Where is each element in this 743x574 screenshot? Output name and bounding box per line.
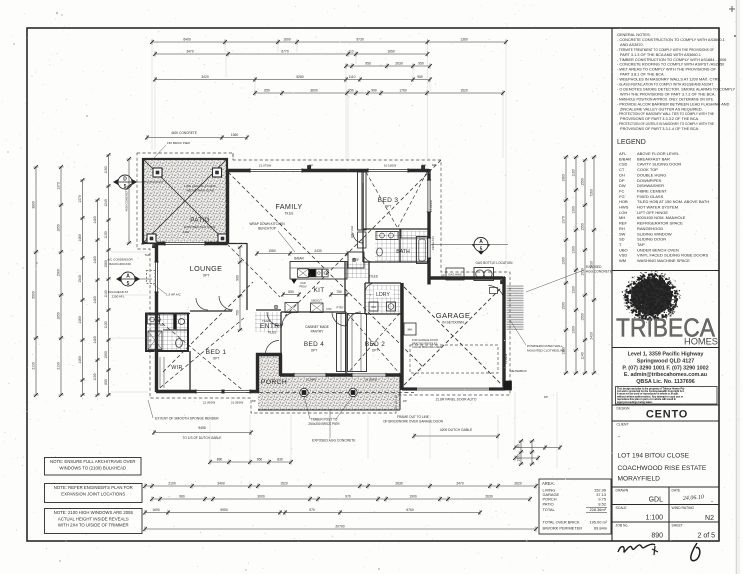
svg-text:GARAGE: GARAGE <box>436 311 471 320</box>
svg-text:ZINCALUME VALLEY GUTTER AS REQ: ZINCALUME VALLEY GUTTER AS REQUIRED. <box>620 107 703 111</box>
svg-text:BED 3: BED 3 <box>378 197 399 204</box>
svg-text:4420 CONCRETE: 4420 CONCRETE <box>125 188 129 212</box>
svg-text:WITH THE PROVISIONS OF PART 3.: WITH THE PROVISIONS OF PART 3.7.2 OF THE… <box>620 92 716 96</box>
svg-text:830: 830 <box>277 458 283 462</box>
svg-text:B/BAR: B/BAR <box>619 156 631 161</box>
svg-text:1240: 1240 <box>104 199 108 207</box>
svg-text:650: 650 <box>264 89 270 93</box>
svg-text:3890: 3890 <box>32 201 36 209</box>
svg-text:- PROVIDE ALCOR BARRIER BETWEE: - PROVIDE ALCOR BARRIER BETWEEN LEAD FLA… <box>617 102 730 106</box>
svg-text:WM: WM <box>371 305 376 309</box>
svg-text:2130: 2130 <box>32 362 36 370</box>
svg-text:2430: 2430 <box>314 249 322 253</box>
svg-text:- WEEPHOLES IN MASONRY WALLS A: - WEEPHOLES IN MASONRY WALLS AT 1200 MAX… <box>617 78 721 82</box>
svg-text:WM: WM <box>619 258 626 263</box>
svg-text:21.8R PANEL DOOR AUTO: 21.8R PANEL DOOR AUTO <box>436 398 477 402</box>
svg-text:5280: 5280 <box>296 75 304 79</box>
svg-text:1600: 1600 <box>283 38 291 42</box>
svg-text:21.06SW: 21.06SW <box>365 378 377 382</box>
svg-text:GENERAL NOTES:: GENERAL NOTES: <box>617 33 651 37</box>
svg-text:1060: 1060 <box>104 260 108 268</box>
svg-text:1140: 1140 <box>104 290 108 297</box>
svg-text:PATIO: PATIO <box>190 217 209 224</box>
svg-text:TAP: TAP <box>145 253 150 257</box>
svg-text:REFRIGERATOR SPACE: REFRIGERATOR SPACE <box>637 221 683 226</box>
svg-text:1.5 HP A/C: 1.5 HP A/C <box>166 293 182 297</box>
svg-text:FAMILY: FAMILY <box>275 202 302 211</box>
svg-text:WASHING MACHINE SPACE: WASHING MACHINE SPACE <box>637 258 690 263</box>
svg-text:D: D <box>123 176 127 182</box>
svg-text:2130: 2130 <box>57 362 61 370</box>
svg-text:1500: 1500 <box>562 302 566 310</box>
svg-text:WIR: WIR <box>171 365 183 371</box>
svg-text:OPT: OPT <box>311 349 318 353</box>
svg-text:WIND RATING: WIND RATING <box>672 506 695 510</box>
svg-text:6760: 6760 <box>406 508 414 512</box>
svg-text:FIBRE CEMENT: FIBRE CEMENT <box>637 188 667 193</box>
svg-text:5: 5 <box>480 246 483 252</box>
svg-text:HOMES: HOMES <box>684 337 718 347</box>
svg-text:1520: 1520 <box>460 89 468 93</box>
svg-text:CHC: CHC <box>326 308 332 311</box>
svg-text:MH: MH <box>408 328 413 332</box>
svg-text:WITH 2X4 TO U/SIDE OF TRIMMER: WITH 2X4 TO U/SIDE OF TRIMMER <box>58 523 129 528</box>
svg-text:1690: 1690 <box>152 508 160 512</box>
svg-text:1:100: 1:100 <box>645 515 663 522</box>
svg-text:1390: 1390 <box>562 257 566 265</box>
svg-text:TILES: TILES <box>268 331 277 335</box>
svg-text:1980: 1980 <box>268 249 276 253</box>
svg-text:TOTAL OVER BRICK: TOTAL OVER BRICK <box>543 520 581 525</box>
svg-text:EXTENT OF SMOOTH SPONGE RENDER: EXTENT OF SMOOTH SPONGE RENDER <box>155 417 219 421</box>
svg-text:DP: DP <box>544 395 548 399</box>
svg-text:BRACING PROFILES: BRACING PROFILES <box>412 342 438 346</box>
svg-text:1480: 1480 <box>93 296 97 304</box>
svg-text:EXPOSED AGG CONCRETE: EXPOSED AGG CONCRETE <box>312 439 356 443</box>
svg-text:LINEN: LINEN <box>362 238 365 245</box>
svg-text:REFGLASS: REFGLASS <box>431 236 435 250</box>
svg-text:- GLASS INSTALLATION TO COMPLY: - GLASS INSTALLATION TO COMPLY WITH AS12… <box>617 83 714 87</box>
svg-text:LOT 194 BITOU CLOSE: LOT 194 BITOU CLOSE <box>618 453 690 460</box>
svg-text:1550: 1550 <box>581 223 585 231</box>
svg-text:1150: 1150 <box>104 166 108 173</box>
svg-text:8.52: 8.52 <box>598 501 606 506</box>
svg-text:PART 3.8.1 OF THE BCA.: PART 3.8.1 OF THE BCA. <box>620 73 665 77</box>
svg-text:ACTUAL HEIGHT INSIDE REVEALS: ACTUAL HEIGHT INSIDE REVEALS <box>58 516 129 521</box>
svg-text:WRAP DOWN KITCHEN: WRAP DOWN KITCHEN <box>249 222 285 226</box>
svg-text:UBO/C/T: UBO/C/T <box>311 298 322 302</box>
svg-text:DOWNPIPES: DOWNPIPES <box>637 178 662 183</box>
svg-text:- CONCRETE ROOFING TO COMPLY W: - CONCRETE ROOFING TO COMPLY WITH AS/PST… <box>617 63 724 67</box>
svg-text:FRAME OUT TO LINE: FRAME OUT TO LINE <box>397 415 429 419</box>
svg-text:DH: DH <box>619 172 625 177</box>
svg-text:CSD: CSD <box>619 162 628 167</box>
svg-text:QBSA Lic. No. 1137696: QBSA Lic. No. 1137696 <box>636 379 695 385</box>
svg-text:1480: 1480 <box>93 216 97 224</box>
svg-text:6770: 6770 <box>281 50 289 54</box>
svg-text:B/WORK PERIMETER: B/WORK PERIMETER <box>543 526 583 531</box>
svg-text:OPT: OPT <box>203 274 210 278</box>
svg-text:BACKGROUND: BACKGROUND <box>109 262 131 266</box>
svg-text:EXPOSED AGG CONC: EXPOSED AGG CONC <box>184 225 216 229</box>
svg-text:NOTE: REFER ENGINEER'S PLAN FO: NOTE: REFER ENGINEER'S PLAN FOR <box>54 485 133 490</box>
svg-text:DISHWASHER: DISHWASHER <box>637 183 664 188</box>
svg-text:DP: DP <box>141 242 145 246</box>
svg-text:- WET AREAS TO COMPLY WITH THE: - WET AREAS TO COMPLY WITH THE PROVISION… <box>617 68 717 72</box>
svg-text:2630: 2630 <box>485 495 493 499</box>
svg-text:MH: MH <box>619 215 625 220</box>
svg-text:FC: FC <box>619 188 624 193</box>
svg-text:AFL: AFL <box>619 151 627 156</box>
svg-text:- TERMITE TREATMENT TO COMPLY: - TERMITE TREATMENT TO COMPLY WITH THE P… <box>617 48 715 52</box>
svg-text:legal proceedings being taken.: legal proceedings being taken. <box>617 401 653 404</box>
svg-text:- PROTECTION OF LINTELS IN MAS: - PROTECTION OF LINTELS IN MASONRY TO CO… <box>617 122 714 126</box>
svg-text:OF BRICKWORK OVER GARAGE DOOR: OF BRICKWORK OVER GARAGE DOOR <box>383 420 444 424</box>
svg-text:900: 900 <box>236 275 240 281</box>
svg-text:AREA:: AREA: <box>542 481 555 486</box>
svg-text:COACHWOOD RISE ESTATE: COACHWOOD RISE ESTATE <box>618 465 707 472</box>
svg-text:21.07SW: 21.07SW <box>259 164 272 168</box>
svg-text:BREAKFAST BAR: BREAKFAST BAR <box>637 156 670 161</box>
svg-text:FOR GARAGE DOOR: FOR GARAGE DOOR <box>412 338 438 342</box>
svg-text:REF: REF <box>619 221 628 226</box>
svg-text:1580: 1580 <box>57 269 61 277</box>
svg-text:110: 110 <box>348 50 353 54</box>
svg-text:1390: 1390 <box>572 246 576 254</box>
svg-text:UNDER BENCH OVEN: UNDER BENCH OVEN <box>637 247 679 252</box>
svg-text:1100: 1100 <box>104 321 108 328</box>
svg-text:4620 CONCRETE: 4620 CONCRETE <box>171 131 197 135</box>
svg-text:A/C CONDENSOR: A/C CONDENSOR <box>107 258 133 262</box>
svg-text:DW: DW <box>619 183 626 188</box>
svg-text:2 of 5: 2 of 5 <box>697 533 715 540</box>
svg-text:POWDERCOATED WALL: POWDERCOATED WALL <box>527 344 563 348</box>
svg-text:DP: DP <box>252 399 256 403</box>
svg-text:1650: 1650 <box>57 312 61 320</box>
svg-text:CENTO: CENTO <box>646 408 688 420</box>
svg-text:HOB: HOB <box>619 199 628 204</box>
svg-text:E. admin@tribecahomes.com.au: E. admin@tribecahomes.com.au <box>624 372 707 378</box>
svg-text:CT: CT <box>619 167 625 172</box>
svg-text:2620: 2620 <box>514 482 522 486</box>
svg-text:1370: 1370 <box>57 182 61 190</box>
svg-text:ABOVE FLOOR LEVEL: ABOVE FLOOR LEVEL <box>637 151 680 156</box>
svg-text:BENCHTOP: BENCHTOP <box>258 227 276 231</box>
svg-text:1110: 1110 <box>349 75 356 79</box>
svg-text:NOTE: 2100 HIGH WINDOWS ARE 20: NOTE: 2100 HIGH WINDOWS ARE 2055 <box>54 510 134 515</box>
svg-text:970: 970 <box>309 508 315 512</box>
svg-text:GDL: GDL <box>649 497 664 504</box>
svg-text:1100: 1100 <box>104 231 108 238</box>
svg-text:1390: 1390 <box>572 326 576 334</box>
svg-text:21.02SW: 21.02SW <box>429 200 433 212</box>
svg-text:1390: 1390 <box>572 286 576 294</box>
svg-text:1650: 1650 <box>57 224 61 232</box>
svg-text:LOUNGE: LOUNGE <box>190 264 222 273</box>
svg-text:SLIDING WINDOW: SLIDING WINDOW <box>637 231 672 236</box>
svg-text:HWS: HWS <box>619 205 629 210</box>
svg-text:PTRY: PTRY <box>336 306 343 310</box>
svg-text:LDRY: LDRY <box>376 292 390 298</box>
svg-text:GAS BOTTLE LOCATION: GAS BOTTLE LOCATION <box>476 261 514 265</box>
svg-text:3040 VGR: 3040 VGR <box>350 226 354 238</box>
svg-text:SHEET: SHEET <box>672 524 683 528</box>
svg-text:GAS HWS: GAS HWS <box>448 273 462 277</box>
svg-text:RH: RH <box>619 226 625 231</box>
svg-text:1370: 1370 <box>562 216 566 224</box>
svg-text:OPT: OPT <box>213 357 220 361</box>
svg-text:Level 1, 3359 Pacific Highway: Level 1, 3359 Pacific Highway <box>628 352 704 358</box>
svg-text:IN SETDOWN: IN SETDOWN <box>442 321 464 325</box>
svg-text:6400: 6400 <box>183 38 191 42</box>
svg-text:VINYL FACED SLIDING ROBE DOORS: VINYL FACED SLIDING ROBE DOORS <box>637 253 709 258</box>
svg-text:21.09SW: 21.09SW <box>203 401 216 405</box>
svg-text:OPT: OPT <box>372 349 379 353</box>
svg-text:20700: 20700 <box>335 525 344 529</box>
svg-text:A: A <box>126 273 130 279</box>
svg-text:1390: 1390 <box>572 206 576 214</box>
svg-text:1390: 1390 <box>562 347 566 355</box>
svg-text:DP: DP <box>160 323 164 327</box>
svg-text:24.06.10: 24.06.10 <box>683 494 704 502</box>
svg-text:12.9EW: 12.9EW <box>504 353 508 364</box>
svg-text:LEGEND: LEGEND <box>617 139 646 146</box>
svg-text:970: 970 <box>345 495 351 499</box>
svg-text:PATIO: PATIO <box>543 501 554 506</box>
svg-text:3600: 3600 <box>310 89 318 93</box>
svg-text:1550: 1550 <box>581 268 585 276</box>
svg-text:PORCH: PORCH <box>261 379 287 386</box>
svg-text:TILES: TILES <box>369 275 378 279</box>
svg-text:BULKHEAD AT: BULKHEAD AT <box>108 290 129 294</box>
svg-text:2470: 2470 <box>456 482 464 486</box>
svg-text:LINE CEILING AT 2440: LINE CEILING AT 2440 <box>184 184 216 188</box>
svg-text:PROV: PROV <box>299 284 307 288</box>
svg-text:A: A <box>479 239 483 245</box>
svg-text:PROVISIONS OF PART 3.3.1.4 OF: PROVISIONS OF PART 3.3.1.4 OF THE BCA. <box>620 127 699 131</box>
svg-text:750: 750 <box>236 310 240 316</box>
svg-text:4200 DUTCH GABLE: 4200 DUTCH GABLE <box>440 428 473 432</box>
svg-text:SW: SW <box>619 231 626 236</box>
svg-text:600X400 NOM. MANHOLE: 600X400 NOM. MANHOLE <box>637 215 686 220</box>
svg-text:150 BRICK PIER: 150 BRICK PIER <box>167 141 191 145</box>
svg-text:ENTRY: ENTRY <box>260 323 284 330</box>
svg-text:AND AS2870.: AND AS2870. <box>620 43 644 47</box>
svg-text:960: 960 <box>179 495 185 499</box>
svg-text:1370: 1370 <box>78 195 82 203</box>
svg-text:BED 1: BED 1 <box>206 349 227 356</box>
svg-text:KIT: KIT <box>314 287 325 294</box>
svg-text:DP: DP <box>309 164 313 168</box>
svg-text:- O DENOTES SMOKE DETECTOR. SM: - O DENOTES SMOKE DETECTOR. SMOKE ALARMS… <box>617 87 735 91</box>
svg-text:2430: 2430 <box>590 332 594 340</box>
svg-text:1460: 1460 <box>78 356 82 364</box>
svg-text:1180: 1180 <box>572 169 576 176</box>
svg-text:AGG CONCRETE: AGG CONCRETE <box>586 270 612 274</box>
svg-text:DP: DP <box>422 164 426 168</box>
svg-text:850: 850 <box>288 290 294 294</box>
svg-text:TILES: TILES <box>262 319 270 323</box>
svg-text:BED 4: BED 4 <box>304 341 324 348</box>
svg-text:1650: 1650 <box>387 50 395 54</box>
svg-text:N2: N2 <box>705 515 714 522</box>
svg-text:1900: 1900 <box>409 495 417 499</box>
svg-text:750: 750 <box>336 290 342 294</box>
svg-text:3420: 3420 <box>201 75 209 79</box>
svg-text:250x250 BRICK PIER: 250x250 BRICK PIER <box>308 422 340 426</box>
svg-text:FIXED GLASS: FIXED GLASS <box>637 194 664 199</box>
svg-text:OPT: OPT <box>385 205 392 209</box>
svg-text:PANTRY: PANTRY <box>311 330 325 334</box>
svg-text:2630: 2630 <box>395 62 403 66</box>
svg-text:T: T <box>370 293 372 297</box>
svg-text:RANGEHOOD: RANGEHOOD <box>637 226 663 231</box>
svg-text:3470: 3470 <box>186 50 194 54</box>
svg-text:COLOR BRACING USED: COLOR BRACING USED <box>412 345 442 349</box>
svg-text:1060: 1060 <box>562 174 566 182</box>
svg-text:FG: FG <box>619 194 625 199</box>
svg-text:TIMBER POST TO: TIMBER POST TO <box>311 418 338 422</box>
svg-text:METERBOX: METERBOX <box>510 369 527 373</box>
svg-text:3400: 3400 <box>217 482 225 486</box>
svg-text:PART 3.1.3 OF THE BCA AND WITH: PART 3.1.3 OF THE BCA AND WITH AS3660.1 <box>620 53 701 57</box>
svg-text:9455: 9455 <box>198 426 206 430</box>
svg-text:P. (07) 3290 1001 F. (07) 3: P. (07) 3290 1001 F. (07) 3290 1002 <box>622 365 708 371</box>
svg-text:LOH: LOH <box>619 210 627 215</box>
svg-text:DESIGN: DESIGN <box>617 407 631 411</box>
svg-text:Springwood QLD 4127: Springwood QLD 4127 <box>637 358 695 364</box>
svg-text:TILES: TILES <box>285 212 294 216</box>
svg-text:69.84m: 69.84m <box>594 526 607 531</box>
svg-text:UBO: UBO <box>619 247 628 252</box>
svg-text:195.00 m²: 195.00 m² <box>589 520 607 525</box>
svg-text:DP: DP <box>432 163 436 167</box>
svg-text:890: 890 <box>217 458 223 462</box>
svg-text:DP: DP <box>403 399 407 403</box>
svg-text:1540: 1540 <box>78 275 82 283</box>
svg-text:990: 990 <box>371 89 377 93</box>
svg-text:950: 950 <box>257 458 263 462</box>
svg-text:1550: 1550 <box>581 178 585 186</box>
svg-text:1520: 1520 <box>280 482 288 486</box>
svg-text:2430: 2430 <box>590 261 594 269</box>
svg-text:MORAYFIELD: MORAYFIELD <box>618 476 661 483</box>
svg-text:21.06W: 21.06W <box>306 378 316 382</box>
svg-text:1360: 1360 <box>460 38 468 42</box>
svg-text:1190: 1190 <box>183 230 189 234</box>
svg-text:WINDOWS TO (2100) BULKHEAD: WINDOWS TO (2100) BULKHEAD <box>59 465 126 470</box>
svg-text:1480: 1480 <box>93 336 97 344</box>
svg-text:JOB No.: JOB No. <box>616 524 629 528</box>
svg-text:1360: 1360 <box>231 133 239 137</box>
svg-text:DP: DP <box>619 178 625 183</box>
svg-text:950: 950 <box>418 62 424 66</box>
svg-text:1480: 1480 <box>93 256 97 264</box>
svg-text:PROVISIONS OF PART 3.3.3.2 OF: PROVISIONS OF PART 3.3.3.2 OF THE BCA. <box>620 117 699 121</box>
svg-text:1760: 1760 <box>399 89 407 93</box>
svg-text:950: 950 <box>348 89 354 93</box>
svg-text:SLIDING DOOR: SLIDING DOOR <box>637 237 666 242</box>
svg-text:TILED HOB AT 150 NOM. ABOVE BA: TILED HOB AT 150 NOM. ABOVE BATH <box>637 199 709 204</box>
svg-text:950: 950 <box>417 75 423 79</box>
svg-text:DP: DP <box>441 274 445 278</box>
svg-text:CAVITY SLIDING DOOR: CAVITY SLIDING DOOR <box>637 162 681 167</box>
svg-text:228.36m²: 228.36m² <box>590 507 607 512</box>
svg-text:DOUBLE HUNG: DOUBLE HUNG <box>637 172 666 177</box>
svg-text:10.16EW: 10.16EW <box>384 164 397 168</box>
svg-text:5090: 5090 <box>32 291 36 299</box>
svg-text:1460: 1460 <box>78 316 82 324</box>
svg-text:5950: 5950 <box>220 508 228 512</box>
svg-text:1090: 1090 <box>104 351 108 359</box>
svg-text:2630: 2630 <box>395 482 403 486</box>
svg-text:9730: 9730 <box>356 38 364 42</box>
svg-text:BED 2: BED 2 <box>365 341 385 348</box>
svg-text:1140: 1140 <box>581 352 585 359</box>
svg-text:BATH: BATH <box>396 249 410 255</box>
svg-text:TO 1/S OF DUTCH GABLE: TO 1/S OF DUTCH GABLE <box>183 436 222 440</box>
svg-text:TOTAL: TOTAL <box>543 507 556 512</box>
svg-text:LIFT OFF HINGE: LIFT OFF HINGE <box>637 210 668 215</box>
svg-text:B/BAR: B/BAR <box>294 257 304 261</box>
svg-text:- PROTECTION OF MASONRY WALL T: - PROTECTION OF MASONRY WALL TIES TO COM… <box>617 112 714 116</box>
svg-text:1550: 1550 <box>581 313 585 321</box>
svg-text:TAP: TAP <box>637 242 645 247</box>
svg-text:MOUNTED CLOTHESLINE: MOUNTED CLOTHESLINE <box>527 349 565 353</box>
svg-text:1190: 1190 <box>93 373 97 380</box>
svg-text:SD: SD <box>619 237 625 242</box>
svg-text:7260: 7260 <box>590 189 594 197</box>
svg-text:CABINET MADE: CABINET MADE <box>305 325 329 329</box>
svg-text:5: 5 <box>127 281 130 287</box>
svg-text:HOT WATER SYSTEM: HOT WATER SYSTEM <box>637 205 678 210</box>
svg-text:2100: 2100 <box>168 482 176 486</box>
svg-text:CLIENT: CLIENT <box>617 423 629 427</box>
svg-text:NOTE: ENSURE FULL ARCHITRAVE O: NOTE: ENSURE FULL ARCHITRAVE OVER <box>50 459 135 464</box>
svg-text:- CONCRETE CONSTRUCTION TO COM: - CONCRETE CONSTRUCTION TO COMPLY WITH A… <box>617 38 725 42</box>
svg-text:21.09SW: 21.09SW <box>231 401 244 405</box>
svg-text:1460: 1460 <box>78 234 82 242</box>
svg-text:-: - <box>618 435 620 441</box>
svg-text:EXPANSION JOINT LOCATIONS: EXPANSION JOINT LOCATIONS <box>61 491 125 496</box>
svg-text:VSD: VSD <box>619 253 627 258</box>
svg-text:DRAWN: DRAWN <box>616 489 629 493</box>
svg-text:SCALE: SCALE <box>616 506 628 510</box>
svg-text:- TIMBER CONSTRUCTION TO COMPL: - TIMBER CONSTRUCTION TO COMPLY WITH AS1… <box>617 58 726 62</box>
svg-text:3000: 3000 <box>257 495 265 499</box>
svg-text:850: 850 <box>104 379 108 385</box>
svg-text:- MANHOLE POSITION APPROX. ONL: - MANHOLE POSITION APPROX. ONLY. DETERMI… <box>617 97 714 101</box>
svg-text:DATE: DATE <box>672 489 682 493</box>
svg-text:COOK TOP: COOK TOP <box>637 167 658 172</box>
svg-text:ABOVE MAIN SLAB: ABOVE MAIN SLAB <box>186 189 213 193</box>
svg-text:890: 890 <box>651 533 663 540</box>
